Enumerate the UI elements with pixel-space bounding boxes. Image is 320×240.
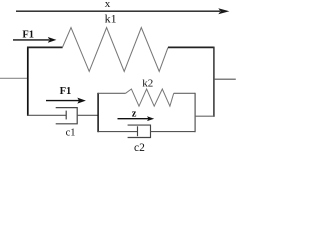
svg-text:c2: c2 [134,142,145,154]
spring k2 right lead [174,92,195,94]
right wall vertical [213,47,215,117]
damper c2 piston plate [137,126,139,136]
svg-text:z: z [132,108,137,119]
spring k1 right lead [168,46,214,48]
inner box left bar [97,93,99,132]
damper c2 cup [128,125,151,137]
spring k2 left lead [98,92,126,94]
damper c1 piston plate [65,111,67,120]
inner box right bar [194,93,196,132]
damper c1 rod [27,114,66,116]
connector to right wall [195,115,214,117]
svg-text:k2: k2 [142,78,153,90]
left wall vertical [27,47,29,116]
spring k1 left lead [27,46,63,48]
displacement arrow z [118,116,155,121]
input rod (left) [0,77,27,79]
output rod (right) [214,78,236,80]
damper c1 cup [56,108,77,124]
spring k2 [126,89,174,106]
damper c2 rod [98,131,137,133]
force F1 lower arrow [46,98,86,104]
svg-text:F1: F1 [60,86,72,97]
damper c2 right lead [151,131,196,133]
force F1 top arrow [13,37,56,43]
svg-text:F1: F1 [22,29,34,40]
displacement arrow x (top) [16,8,229,14]
damper c1 right lead [77,114,98,116]
svg-text:x: x [105,0,111,10]
svg-text:k1: k1 [105,12,117,26]
spring k1 [62,28,168,72]
svg-text:c1: c1 [66,128,76,139]
